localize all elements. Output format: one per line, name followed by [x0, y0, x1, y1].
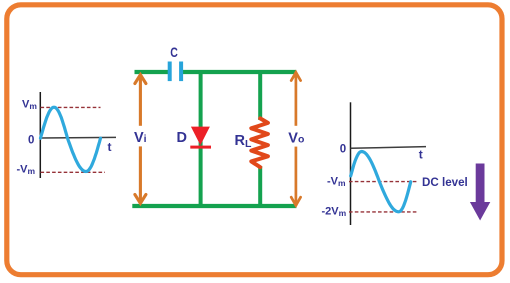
bottom wire — [132, 204, 296, 208]
output waveform y-axis — [350, 102, 352, 225]
svg-text:D: D — [177, 130, 187, 146]
svg-text:Vo: Vo — [288, 130, 304, 146]
svg-text:-Vm: -Vm — [17, 164, 36, 177]
top wire right segment — [182, 70, 296, 74]
DC shift arrow (purple) — [470, 164, 490, 221]
svg-text:t: t — [419, 147, 423, 161]
resistor branch wire bottom — [258, 166, 262, 206]
label Vi white backing — [132, 126, 149, 147]
output sine wave — [351, 152, 411, 212]
input sine wave — [41, 107, 101, 171]
svg-text:0: 0 — [28, 135, 34, 147]
output waveform x-axis — [351, 147, 427, 149]
top wire left segment — [135, 70, 169, 74]
svg-text:t: t — [108, 140, 112, 154]
diode D (cathode-down) — [191, 127, 210, 146]
resistor branch wire top — [258, 72, 262, 120]
dashed line -Vm (output) — [349, 181, 417, 183]
dashed line -2Vm (output) — [349, 211, 417, 213]
svg-text:Vi: Vi — [134, 130, 147, 146]
svg-text:0: 0 — [340, 144, 346, 156]
Vi arrow (orange, double headed) — [135, 75, 146, 204]
input waveform y-axis — [39, 92, 41, 178]
diode branch wire — [199, 72, 203, 206]
capacitor C1 plates — [168, 62, 172, 82]
Vo arrow (orange, double headed) — [291, 72, 300, 205]
svg-text:Vm: Vm — [22, 99, 37, 112]
svg-text:DC level: DC level — [422, 176, 468, 189]
svg-text:-2Vm: -2Vm — [322, 206, 347, 219]
resistor RL zigzag — [251, 118, 268, 167]
dashed line +Vm — [41, 106, 101, 108]
dashed line -Vm (left) — [41, 171, 106, 173]
svg-text:C: C — [170, 45, 178, 60]
svg-text:RL: RL — [235, 133, 252, 150]
svg-text:-Vm: -Vm — [327, 176, 346, 189]
label Vo white backing — [287, 126, 306, 147]
input waveform x-axis — [40, 136, 116, 139]
